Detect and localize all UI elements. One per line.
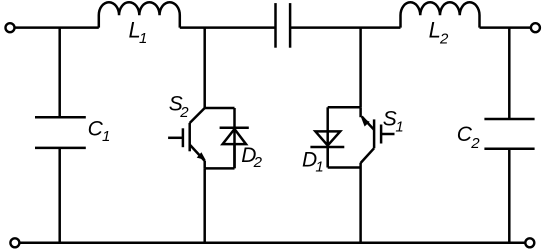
wire D2 branch upper [233,108,236,168]
inductor L1 [99,2,180,27]
svg-text:2: 2 [253,154,263,171]
svg-text:1: 1 [139,30,147,47]
label C2 [457,123,480,152]
label S2 [169,93,190,121]
diode D1 [310,131,344,147]
label S1 [383,107,404,135]
wire top rail: coupling capacitor to L2 [290,26,400,29]
wire S1 block top horizontal [328,106,361,109]
label D2 [241,144,262,171]
diode D2 [220,128,249,144]
terminal top-right [531,23,540,32]
svg-text:2: 2 [439,30,449,47]
wire S1 block bottom horizontal [328,166,361,169]
wire S2 block bottom horizontal [205,167,235,170]
terminal bottom-right [525,238,534,247]
wire C1 branch lower [58,148,61,243]
wire C1 branch upper [58,28,61,118]
wire D1 branch lower [326,147,329,168]
capacitor C2 [484,119,534,149]
wire top rail: L2 to terminal [480,26,532,29]
wire S1 emitter from top rail [359,28,362,108]
wire D1 branch upper [326,107,329,167]
wire C2 branch upper [508,28,511,119]
capacitor C1 [35,117,86,148]
coupling capacitor, left plate [274,3,277,48]
wire S2 collector from top rail [203,28,206,108]
svg-text:1: 1 [315,158,323,175]
svg-text:L: L [429,17,441,42]
inductor L2 [401,2,480,27]
label L2 [429,17,449,47]
wire S2 block top horizontal [205,107,235,110]
wire S2 emitter to bottom rail [203,168,206,242]
terminal bottom-left [10,238,19,247]
terminal top-left [6,23,15,32]
label L1 [129,18,148,47]
svg-text:1: 1 [102,128,110,145]
label D1 [302,148,324,175]
transistor S1 (IGBT) [361,107,395,167]
svg-text:2: 2 [179,104,189,121]
label C1 [88,117,111,145]
wire bottom rail [20,242,526,245]
transistor S2 (IGBT) [168,108,206,168]
coupling capacitor, right plate [289,3,292,48]
wire D2 branch lower [233,144,236,168]
wire top rail: terminal to L1 [15,26,99,29]
wire top rail: L1 to coupling capacitor [180,26,276,29]
svg-text:1: 1 [395,118,403,135]
svg-text:2: 2 [470,135,480,152]
wire S1 collector to bottom rail [359,168,362,243]
wire C2 branch lower [508,149,511,243]
